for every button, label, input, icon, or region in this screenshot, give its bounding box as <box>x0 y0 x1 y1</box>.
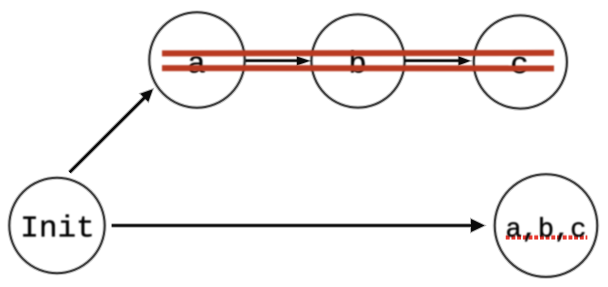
svg-text:a,b,c: a,b,c <box>505 216 586 246</box>
svg-text:Init: Init <box>20 212 94 247</box>
